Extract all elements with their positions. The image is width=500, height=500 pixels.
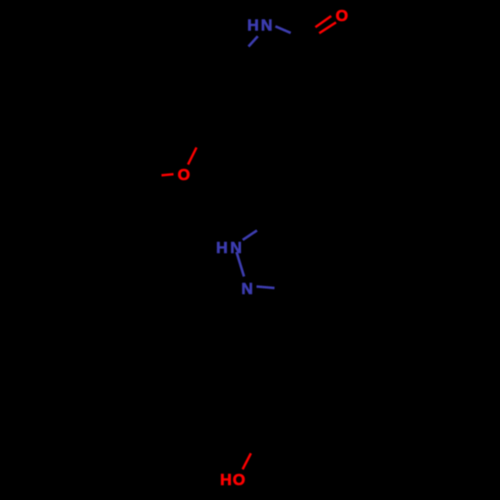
svg-text:H: H (220, 472, 232, 489)
bond O(methoxy)-CH3 (red half) (162, 174, 174, 175)
svg-text:N: N (241, 281, 253, 298)
bond N1-C2 (blue half) (275, 26, 290, 33)
svg-text:O: O (178, 167, 190, 184)
atom label N1 amide "HN" (247, 17, 272, 34)
atom label N1' pyrazoline "HN" (216, 240, 242, 257)
svg-text:O: O (336, 8, 348, 25)
bond N2'=C3' (blue half) (257, 287, 275, 289)
bond N1'-N2' (full blue) (237, 252, 245, 277)
svg-text:O: O (233, 472, 245, 489)
atom label O phenol "HO" (220, 472, 245, 489)
bond O(phenol)-C aryl (red half) (243, 453, 251, 469)
double bond C2=O lower line (red half) (319, 22, 336, 33)
double bond C2=O upper line (red half) (315, 16, 331, 27)
svg-text:N: N (230, 240, 242, 257)
svg-text:H: H (247, 17, 259, 34)
svg-text:N: N (261, 17, 273, 34)
bond N1'(pyrazoline)-C5' (blue half) (243, 230, 257, 240)
bond O(methoxy)-C5 aryl (red half) (188, 148, 197, 165)
svg-text:H: H (216, 240, 228, 257)
bond N1-C7a (blue half) (249, 36, 258, 46)
